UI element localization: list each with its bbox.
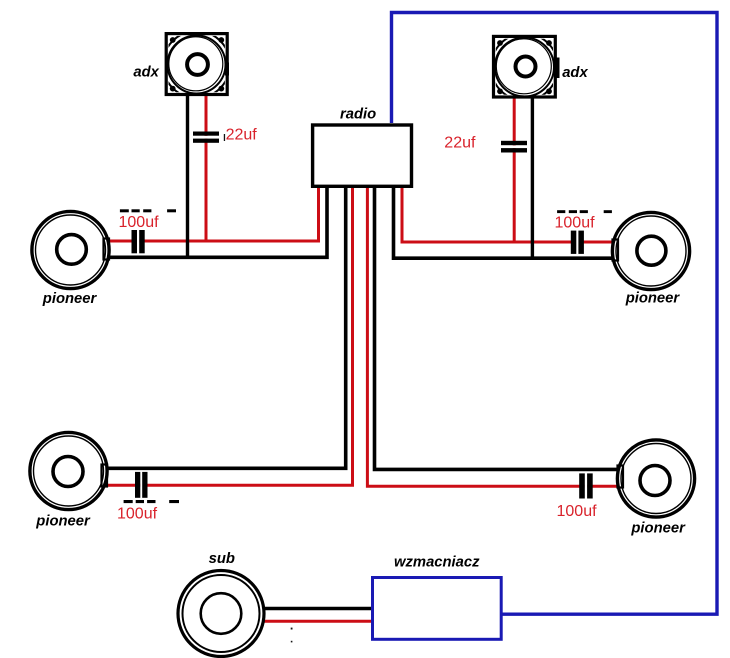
dashes above C3 bbox=[120, 209, 176, 212]
svg-text:pioneer: pioneer bbox=[625, 290, 681, 306]
wire radio left-front black (to pioneer FL) bbox=[106, 187, 328, 257]
wire blue radio-to-amp remote bbox=[392, 13, 718, 615]
wire sub black (to amp) bbox=[262, 607, 373, 611]
wire radio rear-right black (to pioneer RR) bbox=[375, 187, 619, 469]
wire tweeter ADX-L red drop bbox=[205, 94, 208, 241]
svg-text:adx: adx bbox=[562, 65, 588, 81]
svg-text:100uf: 100uf bbox=[119, 214, 160, 231]
tweeter ADX-R bbox=[491, 34, 560, 101]
capacitor C3 100uf (front-left) bbox=[132, 230, 145, 253]
svg-text:100uf: 100uf bbox=[555, 215, 596, 232]
dashes below C5 bbox=[124, 500, 179, 503]
speaker pioneer FR bbox=[612, 212, 689, 289]
capacitor C4 100uf (front-right) bbox=[571, 231, 584, 254]
wire radio rear-left black (to pioneer RL) bbox=[106, 187, 346, 468]
wire tweeter ADX-R black drop bbox=[531, 97, 534, 258]
wire radio rear-right red (to pioneer RR) bbox=[367, 187, 618, 486]
amplifier wzmacniacz box bbox=[373, 578, 502, 640]
svg-text:adx: adx bbox=[133, 65, 159, 81]
svg-text:pioneer: pioneer bbox=[42, 291, 98, 307]
svg-text:pioneer: pioneer bbox=[630, 521, 686, 537]
svg-text:pioneer: pioneer bbox=[35, 514, 91, 530]
wire tweeter ADX-L black drop bbox=[186, 94, 189, 257]
wire radio rear-left red (to pioneer RL) bbox=[104, 187, 353, 485]
subwoofer SUB bbox=[178, 571, 264, 657]
svg-text:100uf: 100uf bbox=[557, 503, 598, 520]
svg-text:100uf: 100uf bbox=[117, 506, 158, 523]
svg-text:wzmacniacz: wzmacniacz bbox=[394, 554, 480, 570]
capacitor C1 22uf (ADX-L) bbox=[193, 132, 219, 143]
speaker pioneer RL bbox=[30, 432, 107, 509]
svg-text:22uf: 22uf bbox=[226, 126, 258, 143]
svg-text:22uf: 22uf bbox=[444, 134, 476, 151]
wire sub red (to amp) bbox=[262, 620, 373, 623]
wire radio right-front black (to pioneer FR) bbox=[394, 187, 615, 258]
radio U1 box bbox=[313, 125, 412, 186]
tweeter ADX-L bbox=[163, 31, 230, 98]
capacitor C2 22uf (ADX-R) bbox=[501, 141, 527, 153]
capacitor C6 100uf (rear-right) bbox=[579, 473, 592, 498]
speaker pioneer RR bbox=[617, 440, 694, 517]
svg-text:sub: sub bbox=[209, 551, 235, 567]
wire radio left-front red (to pioneer FL) bbox=[105, 187, 319, 241]
svg-text:radio: radio bbox=[340, 107, 376, 123]
dashes above C4 bbox=[557, 210, 612, 213]
wire radio right-front red (to pioneer FR) bbox=[402, 187, 614, 242]
stray dots bbox=[291, 628, 293, 643]
capacitor C5 100uf (rear-left) bbox=[135, 472, 148, 498]
wire tweeter ADX-R red drop bbox=[513, 97, 516, 242]
speaker pioneer FL bbox=[32, 211, 109, 288]
